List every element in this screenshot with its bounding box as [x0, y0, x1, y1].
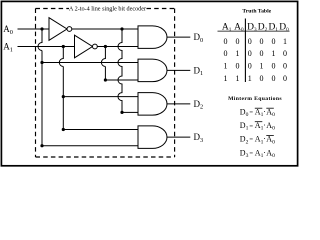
svg-text:0: 0: [236, 62, 240, 71]
svg-text:=: =: [249, 110, 253, 117]
svg-text:A 2-to-4 line single bit decod: A 2-to-4 line single bit decoder: [69, 6, 146, 13]
svg-text:D3: D3: [247, 22, 257, 33]
svg-text:A0: A0: [3, 24, 13, 36]
svg-text:Minterm Equations: Minterm Equations: [228, 96, 282, 102]
svg-text:D0: D0: [279, 22, 289, 33]
svg-text:D0: D0: [240, 108, 249, 119]
svg-text:Truth Table: Truth Table: [242, 8, 271, 14]
svg-text:0: 0: [283, 62, 287, 71]
svg-text:0: 0: [272, 62, 276, 71]
svg-text:D0: D0: [194, 32, 204, 44]
svg-text:1: 1: [283, 37, 287, 46]
svg-text:A0: A0: [266, 148, 275, 159]
svg-text:0: 0: [260, 37, 264, 46]
svg-text:1: 1: [224, 74, 228, 83]
svg-text:D3: D3: [240, 148, 249, 159]
svg-text:D3: D3: [194, 132, 204, 144]
svg-text:D1: D1: [240, 121, 249, 132]
svg-text:0: 0: [224, 37, 228, 46]
svg-text:D2: D2: [258, 22, 268, 33]
svg-text:0: 0: [248, 49, 252, 58]
svg-text:1: 1: [224, 62, 228, 71]
svg-text:A0: A0: [266, 108, 275, 119]
svg-text:1: 1: [236, 74, 240, 83]
svg-text:=: =: [249, 123, 253, 130]
svg-text:0: 0: [272, 37, 276, 46]
svg-text:=: =: [249, 150, 253, 157]
svg-text:A0: A0: [266, 135, 275, 146]
svg-text:1: 1: [236, 49, 240, 58]
svg-text:1: 1: [260, 62, 264, 71]
svg-text:0: 0: [272, 74, 276, 83]
svg-text:0: 0: [224, 49, 228, 58]
svg-text:0: 0: [283, 49, 287, 58]
svg-text:0: 0: [248, 62, 252, 71]
svg-text:A1: A1: [222, 22, 232, 33]
svg-text:0: 0: [260, 74, 264, 83]
svg-text:A0: A0: [234, 22, 244, 33]
svg-text:=: =: [249, 137, 253, 144]
svg-text:D2: D2: [194, 99, 204, 111]
svg-text:0: 0: [236, 37, 240, 46]
svg-text:0: 0: [248, 37, 252, 46]
svg-text:0: 0: [260, 49, 264, 58]
svg-text:0: 0: [283, 74, 287, 83]
svg-text:A0: A0: [266, 121, 275, 132]
svg-text:D1: D1: [268, 22, 278, 33]
svg-text:1: 1: [272, 49, 276, 58]
svg-text:A1: A1: [3, 42, 13, 54]
svg-text:D1: D1: [194, 65, 204, 77]
svg-text:1: 1: [248, 74, 252, 83]
svg-text:D2: D2: [240, 135, 249, 146]
